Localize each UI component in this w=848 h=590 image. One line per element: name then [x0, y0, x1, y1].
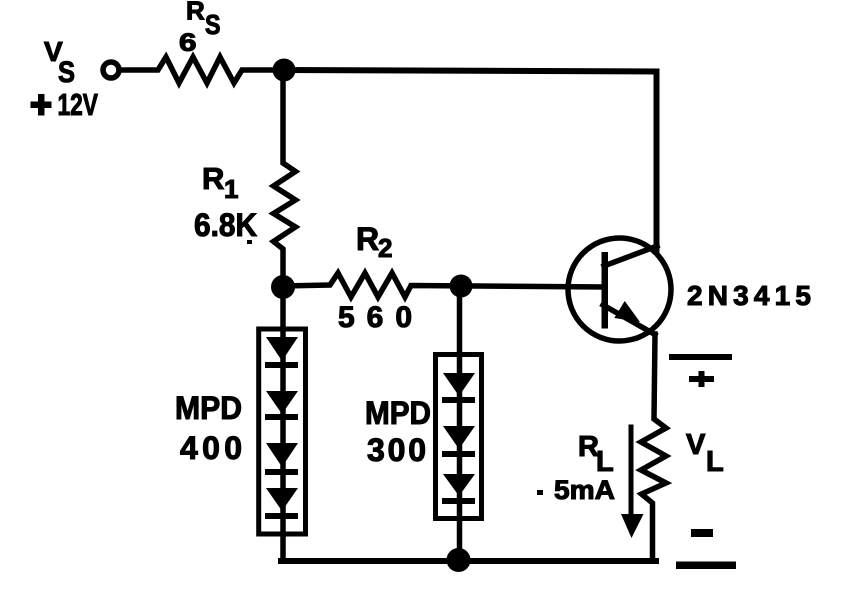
svg-text:MPD: MPD: [365, 395, 431, 431]
svg-text:300: 300: [367, 432, 426, 468]
svg-text:V: V: [686, 429, 706, 461]
svg-text:R: R: [186, 0, 205, 26]
svg-text:1: 1: [224, 174, 238, 204]
svg-text:400: 400: [180, 430, 242, 466]
svg-text:L: L: [596, 446, 614, 478]
svg-text:MPD: MPD: [175, 390, 242, 426]
svg-text:R: R: [356, 221, 379, 257]
svg-text:5mA: 5mA: [554, 475, 615, 505]
svg-text:S: S: [58, 56, 75, 89]
svg-text:S: S: [205, 9, 221, 40]
svg-text:560: 560: [338, 301, 412, 334]
svg-text:6.8K: 6.8K: [194, 207, 257, 243]
svg-text:6: 6: [179, 29, 197, 57]
svg-text:R: R: [202, 161, 224, 196]
svg-text:2: 2: [378, 233, 392, 263]
svg-text:12V: 12V: [58, 87, 99, 122]
svg-text:L: L: [706, 446, 724, 478]
